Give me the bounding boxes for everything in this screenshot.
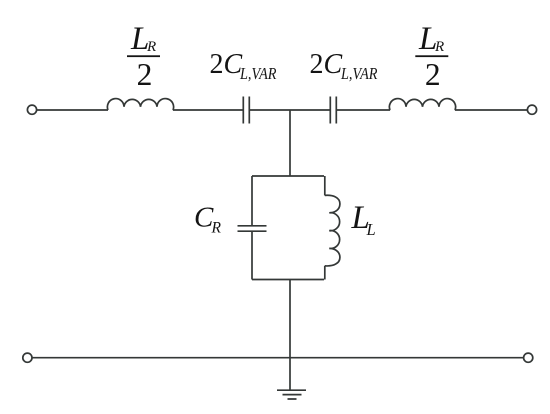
node stem junction to tank: [289, 110, 291, 176]
inductor LR/2 right coil: [389, 99, 455, 110]
wire bottom rail: [32, 357, 523, 359]
capacitor 2C_L,VAR left plates: [243, 97, 249, 124]
inductor LR/2 left coil: [107, 99, 173, 110]
label C_R: [194, 201, 222, 236]
label LR/2 left: denominator 2: [137, 57, 153, 92]
svg-text:R: R: [211, 220, 222, 237]
wire top-left: [37, 109, 108, 111]
terminal bottom-right: [524, 353, 533, 362]
label LR/2 right: denominator 2: [425, 57, 441, 92]
svg-text:L: L: [366, 220, 376, 239]
label 2C_L,VAR right: [310, 49, 378, 83]
label LR/2 right: fraction bar: [415, 55, 448, 57]
wire tank top: [252, 175, 324, 177]
wire coil1 to cap1: [173, 109, 243, 111]
svg-text:2: 2: [137, 57, 153, 92]
label LR/2 right: numerator L_R: [418, 21, 444, 57]
svg-text:2C: 2C: [310, 49, 343, 80]
wire tank right upper: [324, 176, 326, 195]
wire tank left upper: [251, 176, 253, 226]
wire tank bottom: [252, 279, 324, 281]
wire tank right lower: [324, 266, 326, 280]
capacitor C_R plates: [238, 226, 267, 231]
label LR/2 left: fraction bar: [127, 55, 160, 57]
svg-text:L,VAR: L,VAR: [239, 64, 276, 83]
svg-text:2: 2: [425, 57, 441, 92]
label L_L: [351, 200, 376, 239]
terminal top-right: [527, 105, 536, 114]
label 2C_L,VAR left: [210, 49, 277, 83]
ground: [277, 390, 306, 399]
terminal bottom-left: [23, 353, 32, 362]
wire stem to ground: [289, 280, 291, 391]
svg-text:R: R: [434, 39, 444, 55]
svg-text:2C: 2C: [210, 49, 243, 80]
svg-text:R: R: [146, 39, 156, 55]
capacitor 2C_L,VAR right plates: [330, 97, 336, 124]
wire tank left lower: [251, 231, 253, 279]
svg-text:L,VAR: L,VAR: [340, 64, 377, 83]
wire cap2 to coil2: [336, 109, 390, 111]
label LR/2 left: numerator L_R: [130, 21, 156, 57]
inductor L_L coil: [325, 195, 340, 266]
wire cap1 to cap2: [249, 109, 330, 111]
terminal top-left: [27, 105, 36, 114]
wire coil2 to terminal: [455, 109, 528, 111]
